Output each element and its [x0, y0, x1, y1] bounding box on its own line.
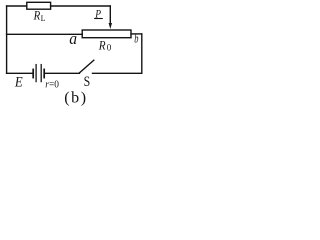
wire right vertical: [141, 34, 143, 73]
svg-text:b: b: [134, 32, 138, 46]
battery E short plate 1: [32, 69, 34, 77]
svg-text:a: a: [69, 29, 77, 48]
potentiometer R0 body: [82, 30, 131, 38]
label P underline: [95, 18, 103, 20]
svg-text:(b): (b): [64, 90, 87, 107]
wire bottom left to battery: [7, 72, 33, 74]
resistor RL: [27, 2, 51, 9]
svg-text:R: R: [98, 37, 106, 52]
wire battery to switch: [45, 72, 79, 74]
wire left vertical: [6, 6, 8, 73]
svg-text:0: 0: [107, 43, 112, 53]
wire switch to right corner: [93, 72, 142, 74]
wire wiper arm vertical: [109, 6, 111, 24]
svg-text:P: P: [95, 6, 102, 20]
svg-text:R: R: [33, 8, 40, 23]
battery E long plate 2: [40, 65, 42, 82]
wire middle segment to node a: [7, 33, 83, 35]
svg-text:L: L: [41, 14, 46, 23]
switch S blade: [79, 60, 93, 73]
wiper arrowhead: [109, 23, 112, 29]
svg-text:S: S: [84, 74, 91, 90]
svg-text:r=0: r=0: [45, 79, 59, 91]
wire node b stub: [131, 33, 142, 35]
wire top right segment: [51, 5, 111, 7]
battery E short plate 2: [43, 69, 45, 77]
wire top left segment: [7, 5, 27, 7]
battery E long plate 1: [35, 65, 37, 82]
svg-text:E: E: [14, 75, 23, 91]
